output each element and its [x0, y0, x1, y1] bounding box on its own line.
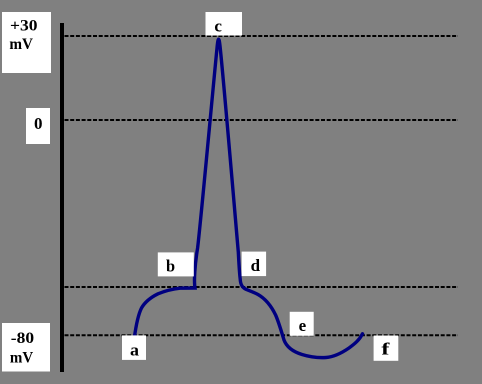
label box b — [158, 252, 194, 276]
dashed line 0 mV level — [65, 119, 459, 121]
svg-text:a: a — [130, 340, 140, 359]
svg-text:-80: -80 — [11, 330, 34, 347]
svg-text:mV: mV — [10, 350, 34, 367]
label box 0 — [26, 108, 50, 144]
svg-text:0: 0 — [34, 114, 43, 133]
label box -80 mV — [2, 323, 50, 372]
dashed line -80 mV level — [65, 334, 459, 336]
label box f — [374, 336, 399, 361]
svg-text:c: c — [214, 16, 222, 35]
svg-text:+30: +30 — [10, 18, 38, 35]
svg-text:f: f — [381, 340, 389, 359]
svg-text:e: e — [299, 316, 307, 335]
svg-text:d: d — [251, 256, 261, 275]
svg-text:b: b — [166, 257, 175, 276]
label box +30 mV — [2, 12, 51, 73]
action potential curve — [134, 39, 362, 357]
label box a — [122, 335, 146, 360]
y-axis — [60, 23, 64, 372]
svg-text:mV: mV — [9, 36, 33, 53]
label box e — [290, 312, 314, 336]
label box c — [206, 12, 243, 36]
dashed line +30 mV level — [65, 35, 459, 37]
dashed line threshold level — [65, 286, 459, 288]
label box d — [242, 252, 267, 277]
